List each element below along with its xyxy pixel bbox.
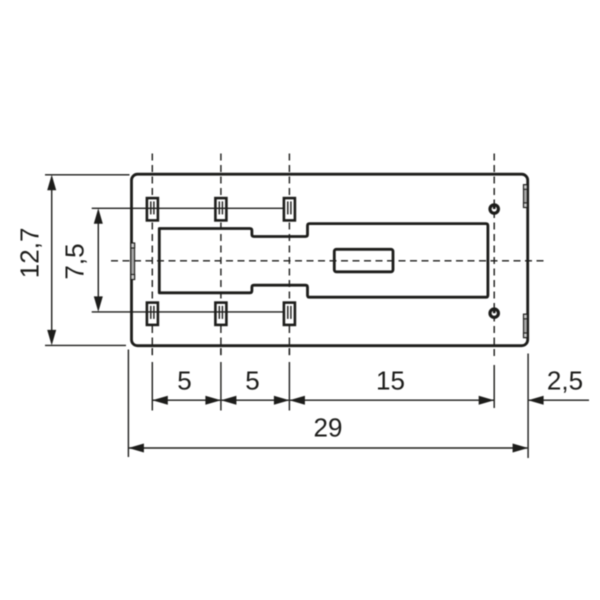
dimension line 2.5 (outside)	[529, 399, 589, 401]
relay body outline	[132, 174, 528, 346]
center line vertical col 2 (dashed)	[220, 154, 222, 356]
inner cutout outline	[159, 224, 488, 298]
svg-text:12,7: 12,7	[15, 228, 45, 279]
center line vertical col 3 (dashed)	[288, 154, 290, 356]
arrowhead 15 right	[479, 396, 495, 405]
round pin bottom (col 4)	[490, 309, 498, 318]
svg-text:5: 5	[245, 366, 259, 396]
dimension line 5 (col2-col3)	[222, 399, 289, 401]
pin 6 (bottom row, col 3)	[284, 303, 295, 325]
extension line below col1	[151, 348, 153, 411]
pin 1 (top row, col 1)	[147, 198, 158, 220]
extension line bottom (12.7 lower)	[45, 344, 126, 346]
arrowhead 7.5 down	[94, 296, 103, 312]
pin 3 (top row, col 3)	[284, 198, 295, 220]
round pin top (col 4)	[490, 205, 498, 214]
arrowhead 5b left	[221, 396, 237, 405]
center line vertical col 1 (dashed)	[151, 154, 153, 356]
pin 5 (bottom row, col 2)	[215, 303, 226, 325]
pin 2 (top row, col 2)	[215, 198, 226, 220]
arrowhead 15 left	[289, 396, 305, 405]
arrowhead 5a left	[152, 396, 168, 405]
svg-text:2,5: 2,5	[547, 366, 583, 396]
center line horizontal (dashed)	[111, 260, 547, 262]
pin 4 (bottom row, col 1)	[147, 303, 158, 325]
dimension line 15 (col3-col4)	[290, 399, 493, 401]
svg-text:29: 29	[314, 412, 343, 442]
arrowhead 29 left	[128, 444, 144, 453]
extension line below col3	[288, 348, 290, 411]
arrowhead 2.5 left (outside)	[528, 396, 544, 405]
side tab right edge upper	[524, 185, 528, 208]
svg-text:15: 15	[376, 366, 405, 396]
dimension line 7.5	[97, 211, 99, 310]
arrowhead 5a right	[205, 396, 221, 405]
extension line top (12.7 upper)	[45, 174, 130, 176]
arrowhead 12.7 up	[47, 175, 56, 191]
side tab left edge	[131, 243, 135, 280]
arrowhead 7.5 up	[94, 208, 103, 224]
dimension line 5 (col1-col2)	[153, 399, 220, 401]
extension line below col4	[493, 365, 495, 408]
side tab right edge lower	[524, 314, 528, 337]
extension line 7.5 lower (through bottom pins)	[92, 311, 284, 313]
svg-text:5: 5	[177, 366, 191, 396]
dimension line 12.7	[51, 177, 53, 343]
dimension line 29	[129, 447, 527, 449]
arrowhead 29 right	[513, 444, 529, 453]
extension line 7.5 upper (through top pins)	[92, 207, 284, 209]
extension line below col2	[220, 348, 222, 411]
arrowhead 5b right	[274, 396, 290, 405]
center line vertical col 4 (dashed)	[493, 154, 495, 358]
small rectangle (armature window)	[334, 249, 393, 271]
arrowhead 12.7 down	[47, 330, 56, 346]
extension line right edge (29 / 2.5)	[527, 354, 529, 459]
svg-text:7,5: 7,5	[60, 243, 90, 279]
extension line left edge (29)	[127, 350, 129, 458]
